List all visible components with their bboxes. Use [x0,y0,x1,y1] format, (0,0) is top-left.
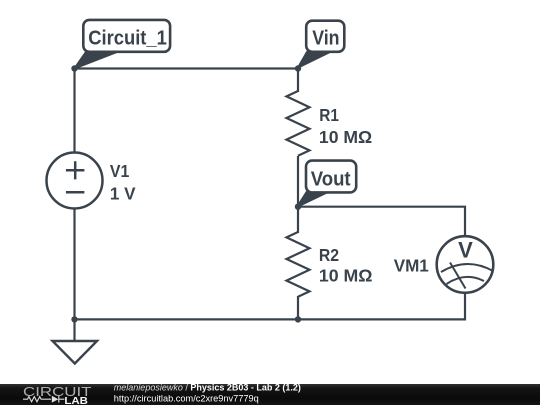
svg-text:V: V [458,238,473,263]
ground [53,319,98,363]
node Vout junction dot [295,204,301,210]
resistor R1 [287,91,310,156]
footer bar [0,384,540,405]
svg-text:Circuit_1: Circuit_1 [88,28,167,50]
CircuitLab logo resistor-diode glyph [23,396,64,403]
svg-text:R1: R1 [319,105,339,125]
wire [297,69,299,93]
node ground-left junction dot [71,316,77,322]
svg-text:10 MΩ: 10 MΩ [319,127,372,147]
node ground-mid junction dot [295,316,301,322]
V1 minus sign [66,191,85,194]
wire [298,207,465,237]
wire [75,69,299,155]
wire [297,296,299,319]
svg-text:10 MΩ: 10 MΩ [319,266,373,286]
voltmeter VM1 [437,236,494,293]
V1 plus sign [66,161,85,179]
VM1 scale arc outer [441,264,493,272]
node Vin flag [298,21,344,68]
node Vin junction dot [295,65,301,71]
voltage source V1 [47,153,103,209]
VM1 needle [450,263,466,289]
svg-text:http://circuitlab.com/c2xre9nv: http://circuitlab.com/c2xre9nv7779q [114,393,259,403]
svg-text:Vin: Vin [312,28,339,50]
svg-text:V1: V1 [110,161,130,181]
svg-text:melanieposiewko / Physics 2B03: melanieposiewko / Physics 2B03 - Lab 2 (… [114,383,301,393]
svg-text:LAB: LAB [64,396,88,405]
node Circuit_1 flag [75,20,171,69]
node Vout flag [297,161,356,207]
svg-text:Vout: Vout [311,169,351,191]
VM1 scale arc inner [447,277,485,284]
svg-text:R2: R2 [319,245,339,265]
svg-text:1 V: 1 V [110,183,136,203]
node A junction dot [71,65,77,71]
wire [297,156,299,233]
wire [75,207,466,319]
svg-text:VM1: VM1 [394,255,429,275]
resistor R2 [287,232,310,297]
